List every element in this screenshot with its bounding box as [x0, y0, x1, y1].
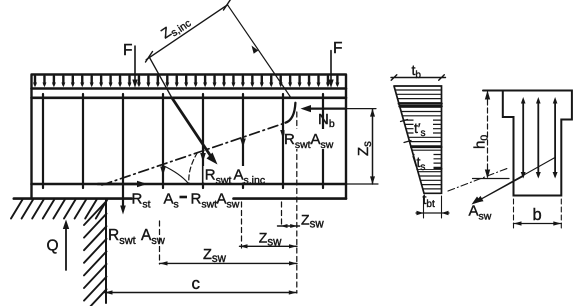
white gaps behind beam labels — [204, 129, 338, 183]
crack tip curve — [286, 103, 296, 123]
Asw leader lines — [474, 158, 555, 204]
force arrow F left — [134, 46, 136, 83]
tbt extensions — [424, 196, 442, 218]
stirrups — [43, 94, 323, 188]
distributed load ticks — [33, 76, 339, 87]
dashed extension x=241.5 — [241, 202, 243, 248]
h0 dimension — [487, 92, 489, 177]
force arrow F right — [330, 51, 332, 84]
crack arc A — [163, 166, 189, 184]
svg-text:b: b — [533, 206, 542, 224]
zs,inc right extension line — [228, 5, 291, 98]
zs dimension extensions — [346, 109, 378, 184]
inclined bar line — [150, 58, 173, 99]
inclined section dash-dot line — [102, 123, 285, 185]
Asw leader dash-dot — [448, 169, 507, 192]
stirrup bottom arrowheads — [521, 172, 558, 179]
dashed extension at crack tip x=297 — [296, 112, 298, 293]
t's ticks — [401, 120, 412, 143]
support hatching face — [84, 201, 107, 306]
b dimension extensions — [514, 199, 562, 228]
dimension zsw large — [160, 262, 298, 264]
minus sign — [180, 196, 188, 199]
svg-text:c: c — [192, 274, 201, 293]
dimension zsw small — [278, 225, 300, 227]
dashed extension x=159.5 — [159, 221, 161, 264]
zs,inc end ticks — [146, 0, 231, 62]
support hatching top — [11, 200, 107, 219]
dimension c — [105, 292, 297, 294]
small arrow on extension — [252, 46, 259, 54]
force arrow Rswt As,inc — [172, 98, 212, 158]
shear force arrow Q — [65, 225, 67, 270]
svg-text:F: F — [333, 40, 342, 57]
top chord line — [32, 97, 347, 100]
beam bottom edge / support top line — [14, 197, 346, 200]
ts tick — [413, 157, 416, 167]
crack arc B — [189, 153, 198, 185]
stress diagram thick band 2 — [411, 147, 441, 169]
tb dimension — [391, 75, 446, 81]
label gaps — [414, 119, 434, 169]
support face — [105, 199, 107, 303]
stress diagram thick band 1 — [399, 104, 442, 107]
stirrup top arrowheads — [521, 97, 558, 104]
b dimension — [514, 223, 562, 225]
section stirrup legs — [523, 100, 555, 176]
bottom chord line — [32, 183, 347, 186]
zs dimension line — [372, 109, 374, 184]
force arrow Nb — [306, 107, 346, 109]
stirrup force arrows — [120, 130, 286, 215]
dimension zs,inc line — [146, 5, 227, 60]
svg-text:F: F — [123, 42, 132, 59]
tbt dimension — [416, 212, 449, 214]
dashed extension x=281.5 — [281, 202, 283, 227]
T-section outline — [483, 91, 572, 196]
dimension zsw medium — [240, 245, 298, 247]
load strip bottom line — [32, 87, 347, 90]
force arrow Rst As — [98, 183, 141, 186]
beam outline — [32, 75, 347, 199]
svg-text:Q: Q — [47, 238, 59, 255]
stress diagram hatch — [395, 90, 441, 189]
stress diagram outline — [394, 86, 442, 193]
